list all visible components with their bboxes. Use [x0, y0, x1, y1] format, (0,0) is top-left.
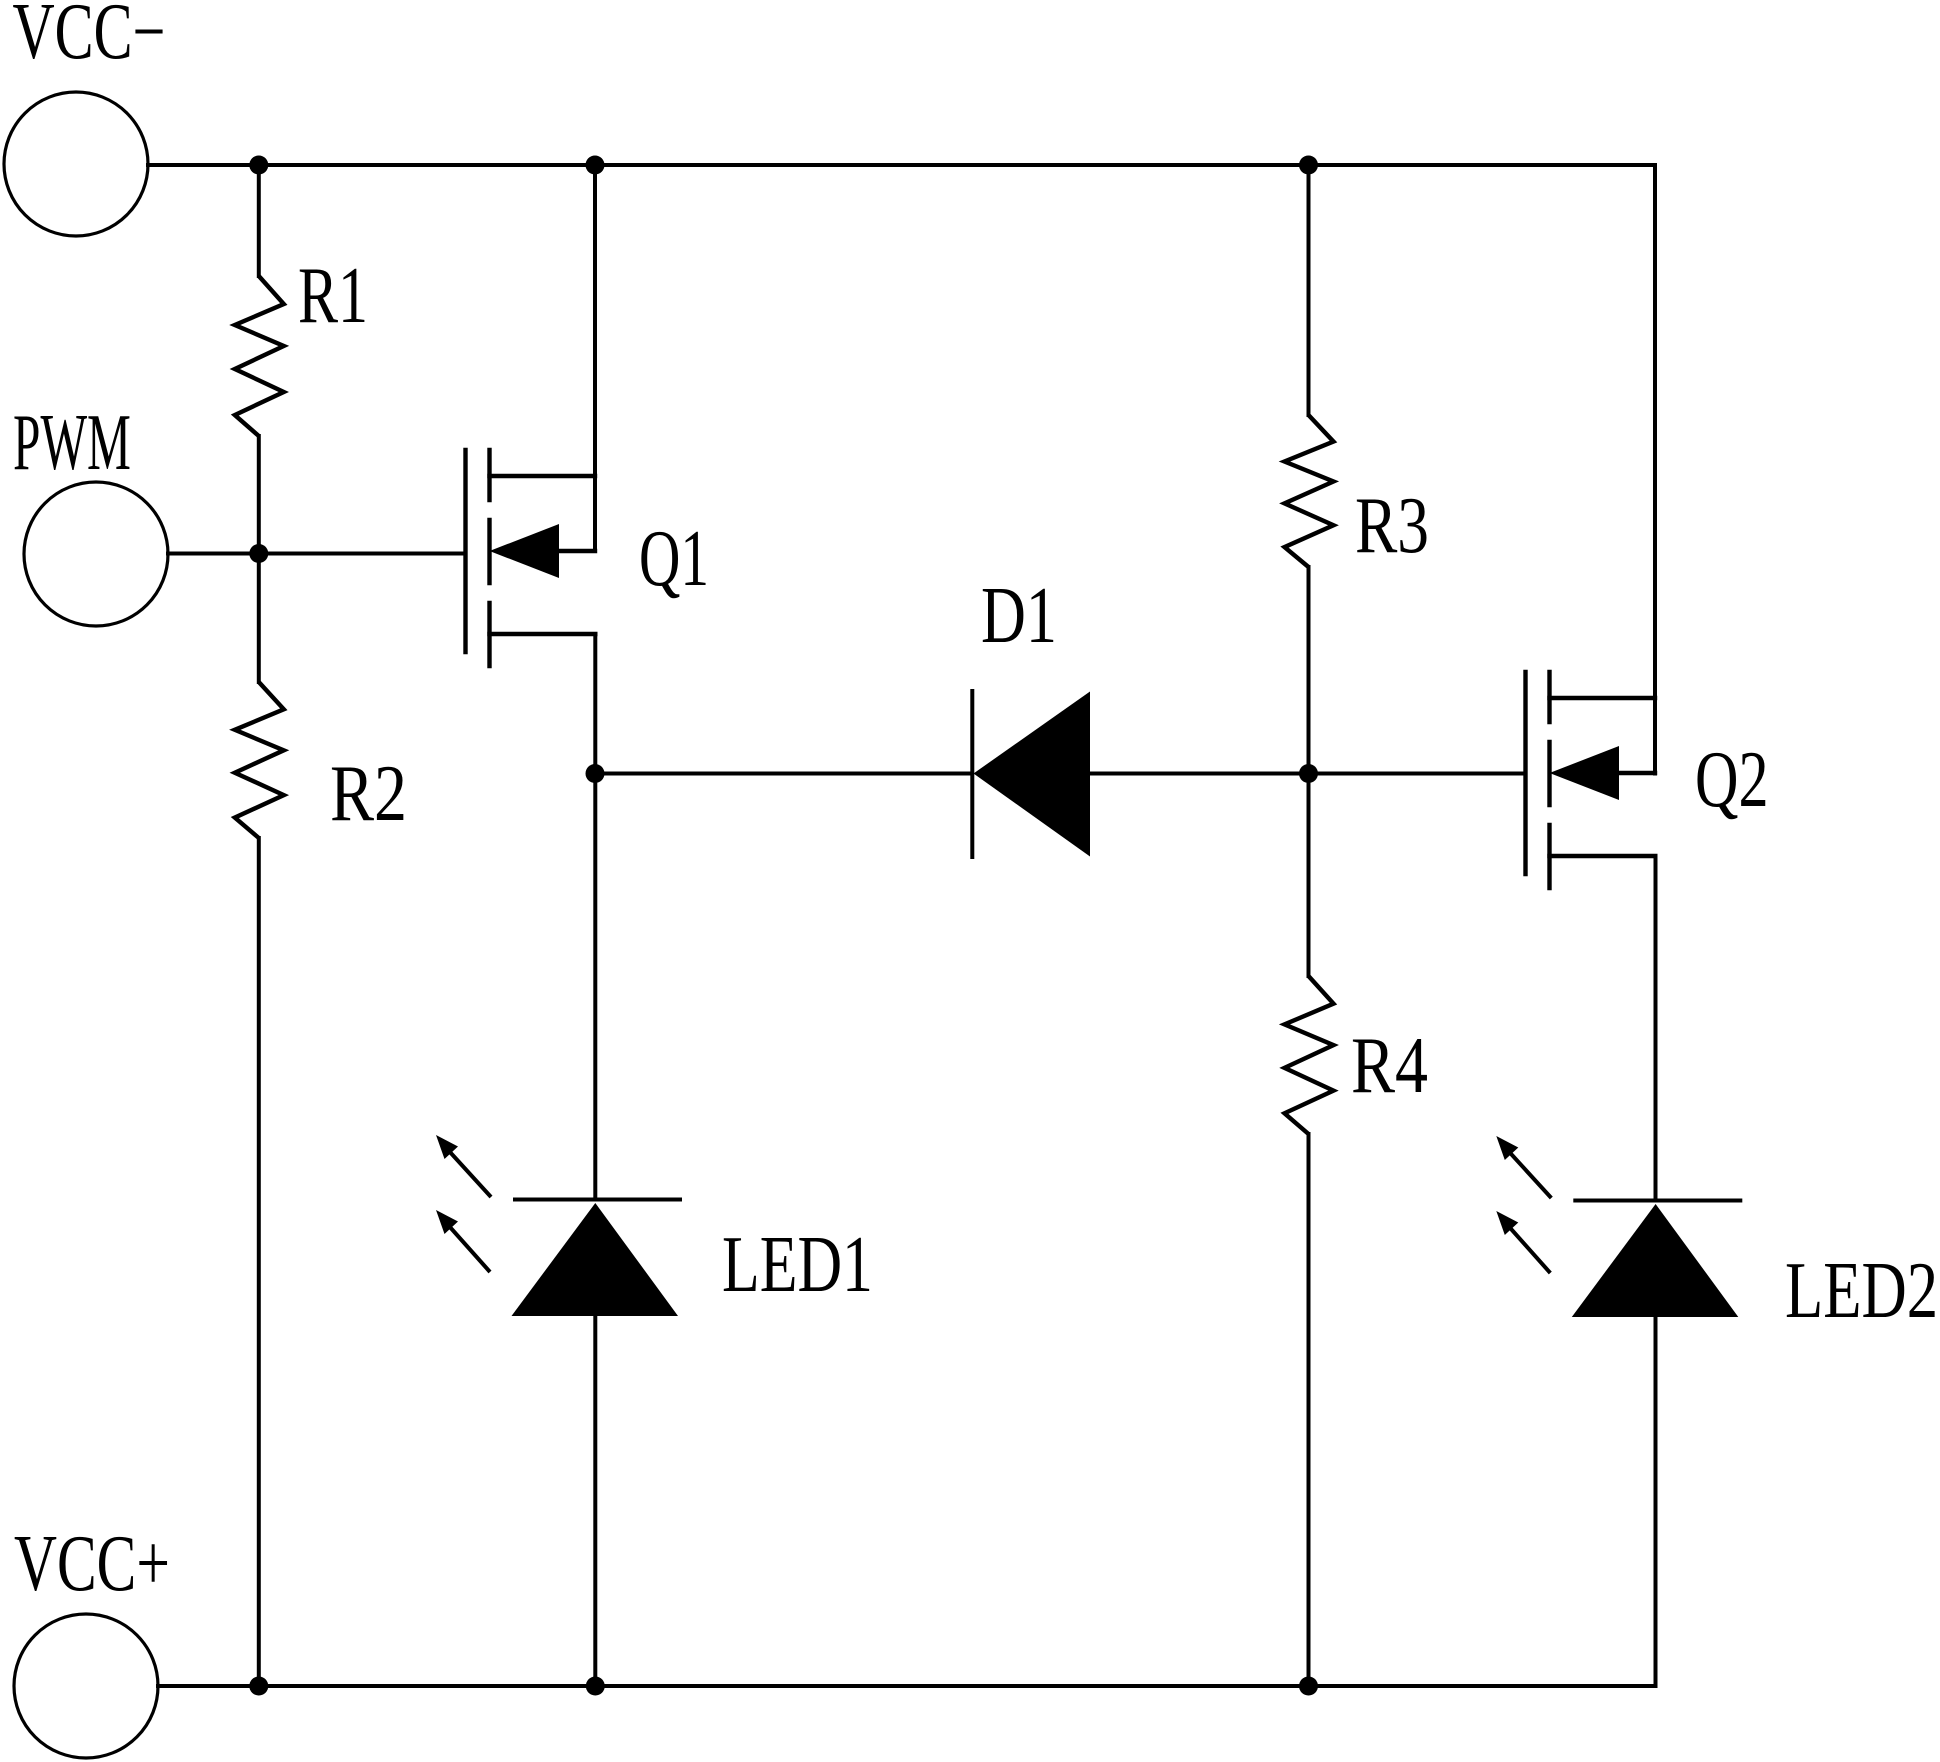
svg-text:LED1: LED1 [722, 1220, 873, 1308]
svg-text:VCC−: VCC− [13, 0, 166, 76]
svg-text:VCC+: VCC+ [14, 1520, 170, 1609]
svg-text:R1: R1 [298, 252, 368, 340]
svg-text:PWM: PWM [13, 399, 131, 487]
svg-text:R4: R4 [1351, 1021, 1428, 1109]
svg-text:D1: D1 [981, 572, 1057, 660]
svg-text:Q1: Q1 [639, 515, 709, 604]
svg-text:R2: R2 [330, 749, 407, 837]
svg-text:Q2: Q2 [1695, 736, 1769, 824]
svg-text:R3: R3 [1355, 481, 1429, 570]
svg-text:LED2: LED2 [1785, 1246, 1938, 1335]
